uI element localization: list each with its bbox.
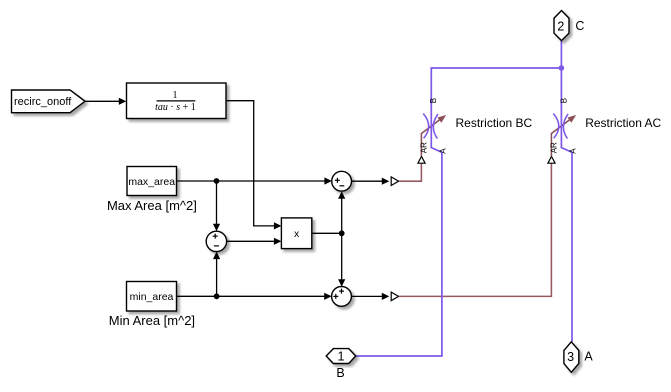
transfer function block U1 — [127, 83, 227, 119]
junction node on max_area wire — [214, 178, 220, 184]
svg-text:min_area: min_area — [130, 291, 174, 303]
wire sum1 to PS converter — [352, 178, 390, 185]
svg-text:A: A — [584, 350, 593, 364]
svg-text:AR: AR — [420, 142, 429, 153]
svg-text:B: B — [429, 98, 438, 103]
wire sum3 to PS converter — [351, 293, 389, 300]
svg-text:A: A — [439, 148, 448, 154]
svg-text:1: 1 — [338, 350, 345, 364]
svg-text:Max Area [m^2]: Max Area [m^2] — [107, 198, 197, 213]
svg-text:1: 1 — [173, 90, 178, 101]
purple junction node — [559, 65, 565, 71]
restriction BC left arc — [423, 114, 429, 139]
constant block max_area — [127, 167, 177, 196]
port 1 (B) hexagon — [326, 349, 356, 364]
sum1 plus sign — [335, 178, 340, 183]
svg-text:Restriction BC: Restriction BC — [456, 116, 533, 130]
wire product to junction — [312, 232, 342, 234]
svg-text:3: 3 — [567, 350, 574, 364]
restriction AC control arrow shaft — [551, 119, 570, 156]
restriction AC control arrow head — [568, 115, 577, 123]
product block — [281, 218, 311, 249]
restriction BC control arrow head — [438, 115, 447, 123]
junction node on min_area wire — [214, 293, 220, 299]
sum block sum2 (subtract) — [206, 231, 226, 251]
wire min_area to sum3 — [177, 293, 332, 300]
wire transfer fcn to product top input — [226, 101, 281, 230]
wire junction down to sum2 plus input — [213, 181, 220, 231]
sum1 minus sign — [340, 185, 345, 187]
constant block min_area — [127, 282, 177, 312]
AR port triangle restriction AC — [548, 156, 555, 163]
wire junction down to sum3 plus input — [338, 233, 345, 286]
restriction AC left arc — [553, 114, 559, 139]
sum block sum1 (max minus product) — [332, 171, 352, 191]
purple wire junction left to restriction BC B port — [356, 68, 562, 356]
restriction AC right arc — [563, 114, 568, 139]
goto tag recirc_onoff — [12, 90, 86, 113]
svg-text:AR: AR — [550, 142, 559, 153]
port 3 (A) hexagon — [564, 342, 579, 373]
svg-text:A: A — [569, 148, 578, 154]
PS port triangle at sum1 output — [391, 177, 398, 186]
sum2 minus sign — [214, 245, 219, 247]
wire max_area to sum1 — [177, 177, 332, 184]
restriction BC right arc — [433, 114, 438, 139]
wire tag to transfer fcn — [85, 98, 126, 105]
sum2 plus sign — [213, 234, 218, 239]
sum block sum3 (min plus product) — [332, 287, 352, 307]
wire junction up to sum2 minus input — [213, 252, 220, 297]
svg-text:x: x — [294, 228, 300, 240]
sum3 left plus sign — [333, 294, 338, 299]
svg-text:B: B — [559, 98, 568, 103]
svg-text:2: 2 — [557, 19, 564, 33]
svg-text:recirc_onoff: recirc_onoff — [14, 96, 72, 108]
fraction bar — [157, 100, 196, 102]
svg-text:B: B — [336, 366, 344, 380]
svg-text:max_area: max_area — [128, 176, 175, 188]
AR port triangle restriction BC — [418, 156, 425, 163]
sum3 top plus sign — [339, 289, 344, 294]
svg-text:C: C — [575, 19, 584, 33]
svg-text:Min Area [m^2]: Min Area [m^2] — [109, 313, 195, 328]
wire sum2 to product bottom input — [227, 238, 282, 245]
restriction BC control arrow shaft — [421, 119, 440, 156]
junction node after product — [339, 230, 345, 236]
port 2 (C) hexagon — [554, 11, 569, 41]
physical signal wire sum1 to restriction BC AR port — [399, 163, 422, 181]
purple wire junction down through restriction AC to port A — [561, 68, 572, 342]
physical signal wire sum3 to restriction AC AR port — [399, 163, 552, 296]
purple wire port C down to junction — [560, 41, 562, 68]
wire junction up to sum1 minus input — [338, 191, 345, 233]
svg-text:Restriction AC: Restriction AC — [585, 116, 661, 130]
svg-text:tau · s + 1: tau · s + 1 — [155, 102, 196, 113]
PS port triangle at sum3 output — [391, 292, 398, 301]
